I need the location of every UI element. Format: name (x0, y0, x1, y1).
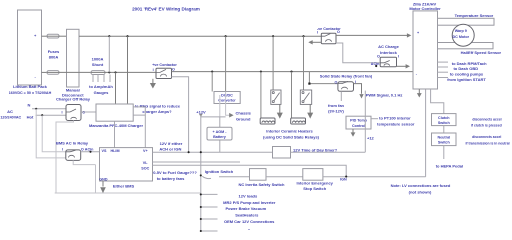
svg-text:temperature sensor: temperature sensor (377, 121, 415, 126)
svg-text:ACin: ACin (85, 148, 94, 152)
wire B- drop to charger (115, 72, 117, 104)
charger Manzanita (89, 104, 143, 128)
svg-text:SOC: SOC (141, 167, 149, 171)
interior emergency stop switch (296, 169, 333, 192)
wire BMS VL out (153, 161, 241, 163)
svg-text:I: I (317, 30, 318, 34)
heater element E2 (291, 118, 306, 124)
svg-text:Gauges: Gauges (94, 90, 109, 95)
wire NC to ESS (266, 176, 303, 178)
heater element E1 (260, 118, 275, 124)
wire clutch to neutral (443, 126, 445, 133)
label chassis ground (236, 111, 252, 122)
wire loads stubs (201, 194, 218, 231)
label fuel gauge (153, 170, 197, 181)
node ACin (89, 151, 91, 153)
svg-text:(not shown): (not shown) (409, 190, 432, 195)
wire Zilla aux stubs (438, 62, 449, 77)
wire neutral down (443, 146, 445, 159)
wire heater2 feed (291, 72, 293, 118)
svg-text:--: -- (248, 228, 250, 232)
svg-text:Temperature Sensor: Temperature Sensor (455, 13, 494, 18)
svg-text:O: O (172, 68, 175, 72)
svg-text:OEM Car 12V Connections: OEM Car 12V Connections (224, 219, 275, 224)
AGM battery BT2 (207, 127, 232, 140)
svg-text:I: I (62, 111, 63, 115)
svg-text:ACH or IGN: ACH or IGN (159, 147, 181, 152)
svg-text:12V loads: 12V loads (239, 193, 258, 198)
svg-text:2001 'REv4' EV Wiring Diagram: 2001 'REv4' EV Wiring Diagram (132, 7, 200, 12)
DC/DC converter U2 (214, 92, 240, 104)
wire 12V down to loads (200, 115, 202, 231)
svg-text:+: + (417, 31, 419, 35)
label neutral note (465, 135, 509, 145)
svg-text:O: O (335, 80, 338, 84)
fuse F1 (47, 34, 59, 38)
svg-text:GND: GND (99, 177, 108, 181)
svg-text:120/240VAC: 120/240VAC (0, 116, 21, 120)
wire interlock out arrow to Zilla (397, 64, 410, 68)
wire bus to DC/DC left (211, 72, 213, 92)
svg-text:DC/DC: DC/DC (221, 93, 233, 97)
ground below Zilla (417, 89, 422, 98)
wire -ve contactor to Zilla B+ (336, 33, 411, 37)
svg-text:Charger Off Relay: Charger Off Relay (56, 96, 91, 101)
svg-text:DC Motor: DC Motor (453, 35, 470, 39)
svg-text:Converter: Converter (218, 98, 236, 102)
wire SSR2 to heater arrow (308, 104, 312, 117)
motor Warp9 (452, 24, 474, 46)
svg-text:Interior Emergency: Interior Emergency (296, 181, 333, 186)
svg-text:disconnects accel: disconnects accel (472, 117, 501, 121)
label note LV (391, 183, 451, 194)
AC charge interlock K5 (377, 44, 400, 67)
node IGN (345, 176, 347, 178)
AC input labels (0, 103, 34, 120)
svg-text:HallEff Speed Sensor: HallEff Speed Sensor (461, 50, 502, 55)
label from fan (328, 103, 345, 114)
wire fan SSR coil (340, 91, 342, 101)
wire clutch feed (431, 89, 444, 114)
svg-text:Stop Switch: Stop Switch (303, 186, 326, 191)
NC inertia safety switch (238, 169, 285, 187)
svg-text:O: O (81, 147, 84, 151)
-ve contactor K4 (317, 27, 341, 44)
svg-text:Control: Control (352, 124, 365, 128)
svg-text:Chassis: Chassis (236, 111, 252, 116)
svg-text:BMS AC In Relay: BMS AC In Relay (56, 140, 89, 145)
svg-text:Lithium Batt Pack: Lithium Batt Pack (13, 84, 48, 89)
BMS box U1 (99, 148, 152, 182)
wire B+ sense drop (108, 36, 110, 72)
charger off relay K2 (56, 96, 91, 120)
wire IGN riser to Zilla (425, 89, 427, 177)
svg-text:I: I (153, 68, 154, 72)
label 12V if either (159, 141, 182, 152)
wire Hot drop to BMS relay input (42, 115, 66, 152)
svg-text:I: I (398, 54, 399, 58)
label clutch note (471, 117, 502, 127)
svg-text:PWM Signal, 0.1 Hz: PWM Signal, 0.1 Hz (366, 92, 403, 97)
wire relay out to charger (81, 111, 96, 113)
speed sensor box (438, 43, 494, 49)
wire fuse F2 to shunt (59, 71, 91, 73)
svg-text:SeatHeaters: SeatHeaters (235, 212, 259, 217)
svg-text:HLIM: HLIM (111, 149, 120, 153)
svg-text:Power Brake Vacuum: Power Brake Vacuum (225, 206, 266, 211)
svg-text:Neutral: Neutral (437, 135, 450, 139)
svg-text:NC Inertia Safety Switch: NC Inertia Safety Switch (238, 182, 285, 187)
svg-text:MR2 P/S Pump and Inverter: MR2 P/S Pump and Inverter (223, 200, 276, 205)
wire AGM riser (219, 117, 221, 152)
wire SSR1 to heater arrow (278, 104, 282, 117)
node N / Hot junctions (35, 108, 43, 116)
svg-text:Solid State Relay (front fan): Solid State Relay (front fan) (320, 73, 373, 78)
svg-text:Ignition Switch: Ignition Switch (205, 169, 234, 174)
svg-text:Interior Ceramic Heaters: Interior Ceramic Heaters (266, 129, 313, 134)
svg-text:+ve Contactor: +ve Contactor (152, 63, 177, 67)
wire main bus after +ve contactor to Zilla (172, 71, 414, 73)
wire BMS SOC out (153, 165, 347, 176)
wire charger off relay coil (56, 121, 74, 194)
wire N drop to BMS relay coil (36, 109, 66, 158)
svg-text:Fuses: Fuses (48, 49, 60, 54)
svg-text:O: O (82, 111, 85, 115)
svg-text:to HEPA Pedal: to HEPA Pedal (436, 164, 463, 169)
node +12V tap arrow (199, 114, 203, 117)
wire shunt sense ticks to gauges (93, 75, 110, 83)
BMS AC In relay K3 (56, 140, 94, 160)
label gauges (89, 84, 113, 95)
wire fan SSR feed (309, 72, 338, 84)
wire shunt to +ve contactor (105, 71, 156, 73)
label REG question (135, 103, 181, 114)
svg-text:0-5V to Fuel Gauge???: 0-5V to Fuel Gauge??? (153, 170, 197, 175)
svg-text:O: O (337, 30, 340, 34)
wire AC Hot (36, 114, 67, 116)
wire drop to ground bus (95, 165, 97, 193)
node ignition tap (200, 174, 202, 176)
svg-text:+ AGM -: + AGM - (213, 130, 228, 134)
wire ignition to NC switch (219, 176, 250, 178)
battery pack BT1 Lithium (9, 10, 52, 95)
wire +12 line through PID (364, 91, 366, 153)
svg-text:Manzanita PFC-40M Charger: Manzanita PFC-40M Charger (89, 123, 143, 128)
wire +ve contactor coil to 12V (172, 77, 189, 152)
svg-text:800A: 800A (49, 54, 59, 59)
wire +ve contactor coil ground (151, 79, 155, 88)
wire BMS relay out to BMS VS (81, 151, 100, 153)
wire battery+ to fuse F1 (42, 35, 48, 37)
wire B+ drop to charger (127, 36, 129, 104)
svg-text:Either BMS: Either BMS (113, 184, 135, 189)
svg-text:to cooling pumps: to cooling pumps (450, 71, 484, 76)
wire BMS relay coil down (73, 160, 95, 164)
label interior ceramic heaters (263, 129, 320, 140)
Zilla controller U4 (409, 1, 441, 89)
wire top bus B+ (79, 35, 321, 37)
wire SSR1 feed from top bus (272, 36, 274, 90)
svg-text:Battery: Battery (213, 135, 227, 139)
svg-text:(using DC Solid State Relays): (using DC Solid State Relays) (263, 134, 320, 139)
svg-text:Hot: Hot (27, 115, 34, 120)
node fan SSR feed corner (308, 83, 310, 85)
wire timer to +12 line (291, 151, 366, 153)
svg-text:1000A: 1000A (92, 56, 104, 61)
wire -ve contactor aux arrow left (308, 40, 321, 44)
svg-text:(3V-12V): (3V-12V) (328, 109, 344, 114)
svg-text:to battery fans: to battery fans (157, 176, 185, 181)
svg-text:Note: LV connections are fused: Note: LV connections are fused (391, 183, 451, 188)
node ACin dot (375, 65, 377, 67)
node bus dots top (108, 35, 304, 37)
svg-text:N: N (28, 103, 31, 108)
svg-text:Warp 9: Warp 9 (455, 29, 467, 33)
svg-text:I: I (62, 147, 63, 151)
wire heater1 feed (260, 72, 262, 118)
wire ground bus bottom (55, 192, 201, 194)
fuse F2 (47, 71, 59, 75)
timer box (273, 147, 291, 159)
svg-text:Clutch: Clutch (438, 116, 450, 120)
wire charger to BMS HLIM (114, 121, 116, 147)
svg-text:Shunt: Shunt (92, 62, 104, 67)
SSR1 solid state relay (271, 90, 281, 104)
svg-text:to Amp/mAh: to Amp/mAh (89, 84, 113, 89)
svg-text:V+: V+ (143, 149, 148, 153)
svg-text:disconnects accel: disconnects accel (472, 135, 501, 139)
svg-text:VS: VS (102, 149, 107, 153)
svg-text:AC: AC (7, 109, 13, 114)
wire ESS to IGN node (323, 176, 426, 178)
wire PID to PT100 (371, 118, 378, 120)
PID temp control U3 (346, 116, 371, 129)
svg-text:Switch: Switch (438, 121, 451, 125)
svg-text:if transmission is in neutral: if transmission is in neutral (465, 141, 509, 145)
wire charger REG riser (133, 107, 145, 148)
svg-text:IGN: IGN (340, 178, 347, 182)
svg-text:Is REG signal to reduce: Is REG signal to reduce (135, 103, 181, 108)
svg-text:+12V: +12V (196, 110, 206, 115)
svg-text:VL: VL (143, 161, 148, 165)
svg-text:to PT100 interior: to PT100 interior (379, 116, 411, 121)
wire SSR2 feed from top bus (303, 36, 305, 90)
svg-text:from Ignition START: from Ignition START (447, 77, 486, 82)
ground BMS (101, 181, 105, 192)
wire 12V-if-either run (153, 151, 273, 153)
temperature sensor box (438, 18, 495, 25)
clutch switch (432, 114, 457, 126)
wire +12V rail (201, 116, 226, 118)
wire AC N (32, 108, 66, 110)
manual disconnect SW1 (62, 29, 84, 97)
+ve contactor K1 (152, 63, 177, 79)
wire fan SSR out to ground (354, 84, 364, 99)
svg-text:charger Amps?: charger Amps? (142, 109, 172, 114)
svg-text:12V if either: 12V if either (160, 141, 183, 146)
label fuses 800A (48, 49, 60, 59)
shunt 1000A (91, 56, 105, 74)
fan SSR K6 (335, 80, 357, 91)
wire fuse F1 to disconnect (59, 35, 67, 37)
svg-text:to Dash OBD: to Dash OBD (453, 66, 478, 71)
svg-text:AC Charge: AC Charge (378, 44, 399, 49)
wire DC/DC to chassis ground (226, 92, 230, 116)
wire top bus to DC/DC (225, 36, 227, 91)
ground PID (351, 129, 356, 137)
svg-text:Switch: Switch (438, 141, 451, 145)
label 12V loads list (223, 193, 276, 231)
wire -ve contactor coil to interlock (336, 43, 380, 63)
svg-text:O: O (377, 55, 380, 59)
svg-text:from fan: from fan (328, 103, 345, 108)
svg-text:+12: +12 (367, 135, 375, 140)
label to PT100 (377, 116, 415, 127)
svg-text:Interlock: Interlock (380, 50, 397, 55)
svg-text:Ground: Ground (236, 116, 251, 121)
neutral switch (432, 133, 457, 146)
svg-text:if clutch is pressed: if clutch is pressed (471, 123, 502, 127)
ignition switch blade (202, 176, 211, 178)
SSR2 solid state relay (300, 90, 311, 104)
wire battery- to fuse F2 (42, 71, 48, 73)
svg-text:160VDC = 50 x TS200AH: 160VDC = 50 x TS200AH (9, 91, 52, 95)
svg-text:Manual: Manual (66, 87, 80, 92)
